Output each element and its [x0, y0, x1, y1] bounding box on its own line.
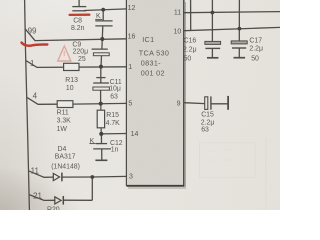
- label C16 2.2u 50: [183, 38, 197, 63]
- pin labels left side: [128, 5, 139, 181]
- wire R11 to pin 5: [73, 102, 127, 105]
- wire pin 11 rail: [184, 12, 280, 13]
- ghost bleed-through rectangle: [200, 143, 256, 178]
- warning triangle annotation (red pencil): [58, 46, 71, 61]
- diode D4a: [53, 173, 62, 182]
- capacitor C12: [93, 134, 111, 160]
- label K at C12: [90, 138, 95, 145]
- wire top vertical feed C16: [211, 0, 213, 41]
- wire net 1 stub: [26, 61, 126, 68]
- label C15 2.2u 63: [201, 111, 215, 133]
- capacitor C16: [205, 41, 221, 57]
- label C17 2.2u 50: [249, 38, 263, 63]
- node on net 99/16: [100, 37, 104, 41]
- node on net 1: [99, 65, 103, 69]
- wire left supply bus: [25, 0, 30, 210]
- label R15 4.7K: [106, 112, 121, 127]
- node A diodes: [90, 175, 94, 179]
- wire D4a to node A: [62, 176, 92, 178]
- wire riser 21 up to node A: [91, 177, 93, 200]
- label C8 value 8.2n: [71, 17, 85, 32]
- resistor R15: [97, 104, 104, 134]
- wire net 11 stub to diode D4a: [29, 171, 54, 178]
- pin labels right side: [174, 9, 182, 107]
- red annotation line over C8: [70, 14, 90, 16]
- wire D4b to riser: [63, 199, 92, 201]
- label K: [96, 13, 101, 20]
- label D4 BA317 (1N4148): [51, 146, 80, 171]
- ghost vertical line right: [265, 138, 267, 210]
- capacitor C15: [205, 96, 228, 110]
- wire pin 12 from C8: [84, 9, 127, 11]
- label R13 10: [65, 77, 78, 92]
- wire pin 9 to C15: [184, 102, 204, 105]
- wire net 99 stub to pin 16: [25, 29, 127, 41]
- diode D4b: [55, 196, 64, 205]
- wire pin 14 from node K: [101, 133, 126, 135]
- node junction dots: [90, 8, 241, 179]
- wire K underline: [95, 18, 102, 20]
- capacitor C11: [93, 67, 110, 104]
- node on pin 11 rail: [211, 11, 215, 15]
- node K cap top on pin12 wire: [101, 8, 105, 12]
- wire top vertical feed C17: [238, 0, 240, 41]
- wire net 4 stub to R11: [27, 98, 57, 105]
- capacitor K (pin12 to pin16 decoupling): [95, 10, 112, 39]
- label C11 10u 63: [109, 79, 122, 101]
- wire pin 10 rail: [184, 27, 280, 30]
- op-amp IC1 TCA530 body: [126, 0, 186, 188]
- paper grain: [0, 0, 1, 1]
- label R11 3.3K 1W: [57, 109, 72, 133]
- node K on net 14: [99, 132, 103, 136]
- node on net 5: [99, 102, 103, 106]
- red annotation squiggle under 99: [22, 43, 48, 46]
- node on pin 10 rail: [238, 27, 242, 31]
- label C9 220u 25: [72, 41, 88, 63]
- wire top vertical feed 1: [190, 0, 192, 30]
- wire net 21 stub to diode D4b: [29, 195, 54, 201]
- capacitor C9: [92, 39, 110, 67]
- label C12 1n: [110, 140, 123, 154]
- resistor R11: [57, 101, 73, 108]
- wire node A to pin 3: [92, 175, 126, 178]
- label IC1 TCA 530 0831- 001 02: [139, 35, 169, 78]
- resistor R13: [64, 63, 79, 70]
- capacitor C17: [231, 41, 247, 58]
- wire K underline 2: [89, 143, 96, 145]
- capacitor C8: [72, 0, 86, 11]
